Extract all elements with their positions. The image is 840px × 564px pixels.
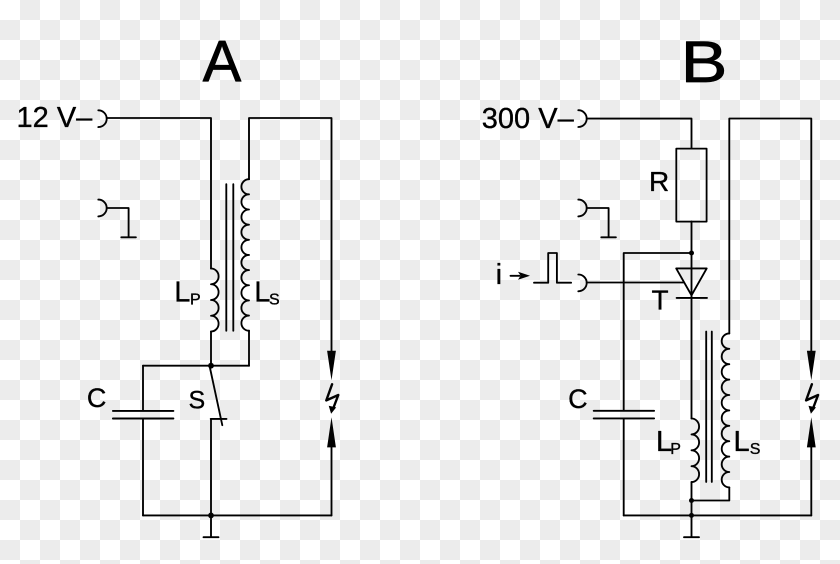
wire A second pole stub bbox=[107, 208, 136, 237]
svg-text:S: S bbox=[189, 387, 206, 415]
terminal 12V supply (A) bbox=[98, 110, 106, 127]
wire A left branch to capacitor bbox=[142, 366, 144, 411]
wire B capacitor bottom bbox=[623, 419, 625, 515]
terminal second pole (B) bbox=[578, 200, 586, 217]
node A1 junction dot bbox=[208, 363, 214, 369]
wire A bottom rail bbox=[143, 514, 332, 516]
inductor LP (A primary coil) bbox=[211, 269, 219, 332]
svg-text:C: C bbox=[568, 384, 588, 414]
wire A capacitor bottom bbox=[142, 419, 144, 515]
svg-text:C: C bbox=[87, 383, 107, 413]
ground stub (A) bbox=[204, 515, 219, 537]
switch S fixed contact (A) bbox=[211, 418, 227, 420]
ground stub (B) bbox=[684, 515, 699, 537]
wire B top from terminal to resistor bbox=[587, 119, 692, 149]
wire B bottom rail bbox=[624, 514, 812, 516]
wire A top from terminal to primary bbox=[107, 118, 211, 269]
wire A secondary top loop bbox=[249, 118, 332, 351]
wire A common node horizontal bbox=[143, 365, 249, 367]
wire A primary bottom to node bbox=[210, 332, 212, 366]
terminal second pole (A) bbox=[98, 200, 106, 217]
svg-text:L: L bbox=[254, 276, 270, 308]
wire A spark to bottom rail bbox=[331, 448, 333, 516]
svg-text:i: i bbox=[496, 259, 502, 291]
wire A switch to bottom bbox=[210, 419, 212, 516]
svg-text:300 V–: 300 V– bbox=[482, 103, 575, 135]
spark gap electrode top (B) bbox=[807, 351, 816, 381]
inductor LS (B secondary coil) bbox=[722, 333, 730, 487]
node B1 junction dot bbox=[689, 251, 694, 256]
svg-text:S: S bbox=[750, 441, 761, 458]
inductor LS (A secondary coil) bbox=[241, 179, 249, 330]
wire A secondary bottom bbox=[248, 331, 250, 366]
trigger pulse waveform bbox=[534, 253, 571, 283]
wire B secondary bottom bbox=[692, 487, 730, 500]
svg-text:S: S bbox=[269, 291, 280, 308]
terminal trigger (B) bbox=[578, 275, 586, 292]
wire B thyristor cathode to primary bbox=[691, 295, 693, 418]
terminal 300V supply (B) bbox=[578, 110, 586, 127]
svg-text:T: T bbox=[652, 285, 669, 316]
transformer core (B) bbox=[706, 332, 712, 482]
wire B node to bottom rail bbox=[691, 501, 693, 516]
wire B spark to bottom rail bbox=[810, 448, 812, 516]
thyristor T anode wire (B) bbox=[691, 253, 693, 295]
svg-text:R: R bbox=[649, 166, 669, 197]
wire B second pole stub bbox=[587, 208, 616, 237]
spark gap electrode top (A) bbox=[327, 351, 336, 381]
capacitor C (A) bbox=[113, 411, 173, 419]
svg-text:L: L bbox=[734, 426, 750, 458]
arrow trigger bbox=[511, 275, 520, 277]
svg-text:P: P bbox=[190, 291, 201, 308]
svg-text:A: A bbox=[203, 30, 242, 95]
transformer core (A) bbox=[226, 184, 233, 331]
node B3 junction dot bbox=[689, 513, 694, 518]
thyristor T (B) bbox=[676, 268, 707, 295]
spark bolt (B) bbox=[806, 384, 818, 409]
spark bolt (A) bbox=[326, 384, 338, 409]
switch S lever (A) bbox=[210, 368, 222, 426]
svg-text:P: P bbox=[670, 441, 681, 458]
node A2 junction dot bbox=[208, 513, 214, 519]
svg-text:12 V–: 12 V– bbox=[17, 102, 94, 134]
spark gap electrode bottom (B) bbox=[807, 417, 816, 447]
wire B node to capacitor branch bbox=[624, 253, 692, 410]
wire B primary bottom bbox=[691, 482, 693, 500]
resistor R (B) bbox=[676, 149, 706, 222]
wire B gate bbox=[587, 282, 684, 284]
capacitor C (B) bbox=[594, 411, 654, 419]
wire B resistor to node bbox=[691, 222, 693, 253]
node B2 junction dot bbox=[689, 498, 694, 503]
svg-text:L: L bbox=[174, 276, 190, 308]
wire B secondary top loop bbox=[729, 119, 811, 352]
inductor LP (B primary coil) bbox=[692, 419, 700, 483]
svg-text:B: B bbox=[681, 30, 728, 95]
spark gap electrode bottom (A) bbox=[327, 417, 336, 447]
